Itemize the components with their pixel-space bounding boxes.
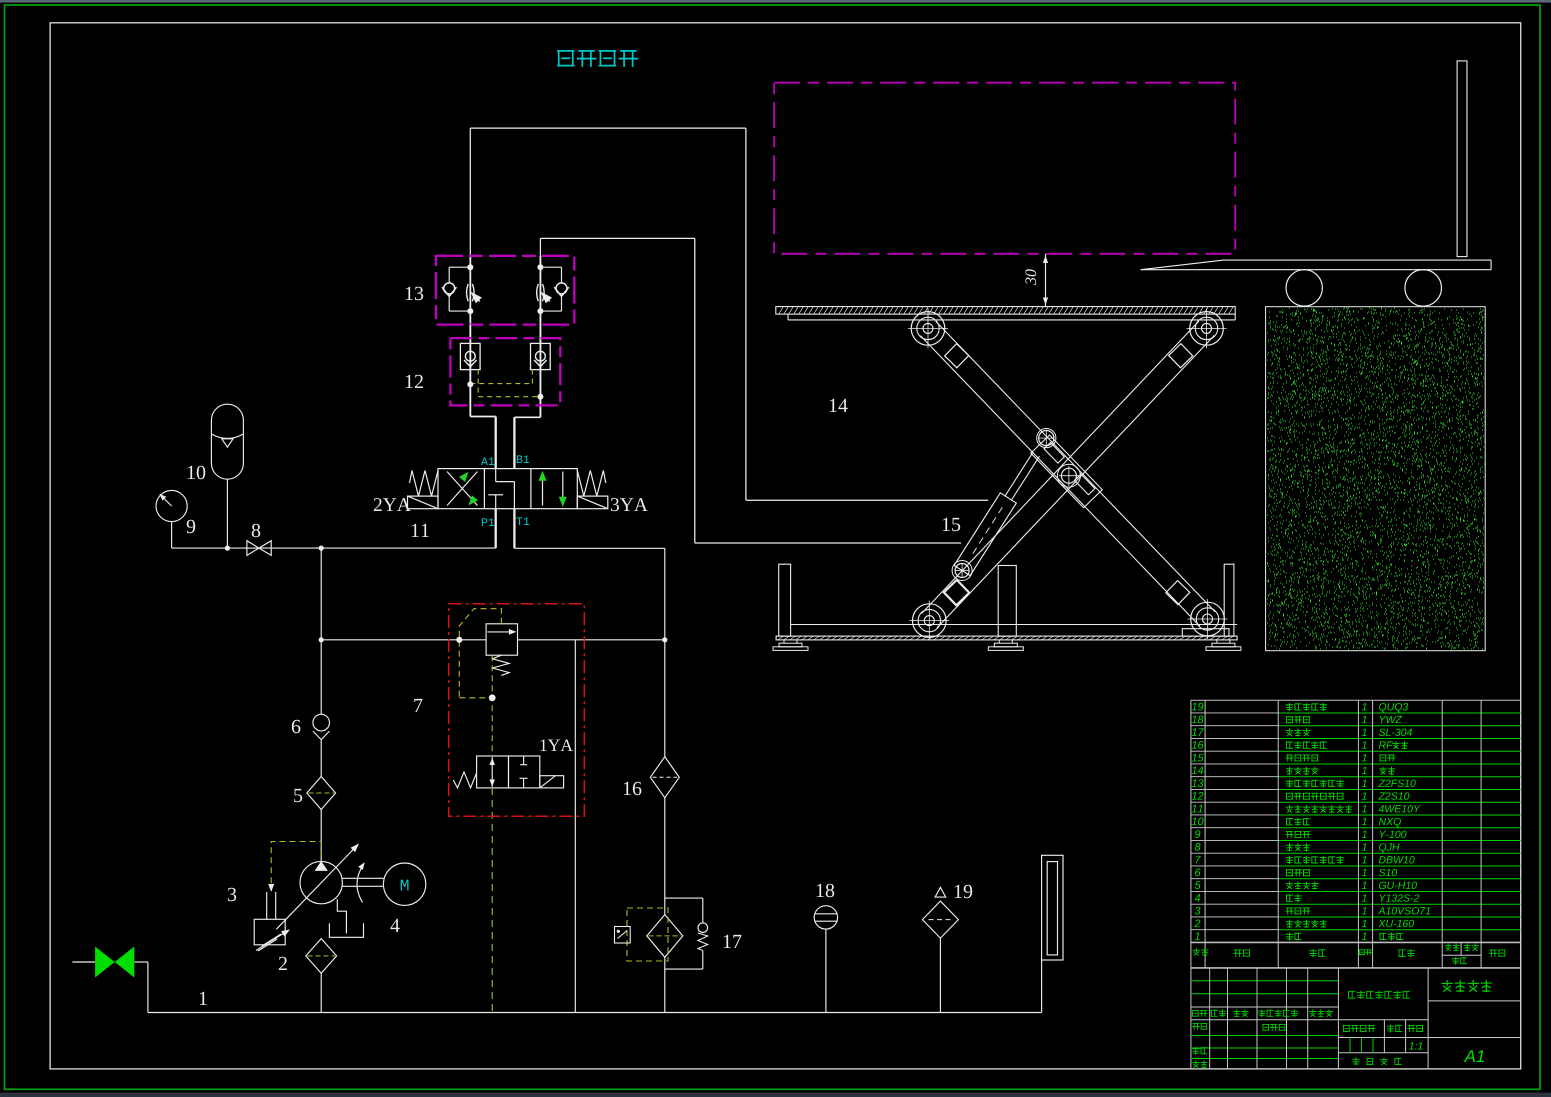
suction filter 2: [279, 939, 337, 1013]
wire: pump column: [320, 548, 322, 714]
wire: [664, 798, 666, 915]
wire: supply line to P1: [172, 547, 496, 549]
dimension 30: [1025, 254, 1048, 307]
pump case drain to tank: [329, 899, 363, 937]
wire: return to tank: [574, 640, 576, 1013]
title block: [1191, 968, 1521, 1069]
pump compensator control: [254, 842, 321, 952]
load outline box (magenta dash-dot): [774, 83, 1235, 254]
air filter 19: [922, 885, 972, 1013]
trailer flatbed: [1141, 61, 1491, 306]
filter 5: [294, 777, 335, 862]
shut-off valve 8: [247, 524, 271, 556]
lift base frame: [773, 564, 1241, 650]
directional valve 11 (4WE10Y): [408, 469, 608, 509]
electric motor 4: [342, 862, 426, 932]
node: relief line left junction: [319, 637, 324, 642]
check valve 6: [292, 714, 330, 776]
wire: A-line riser: [469, 128, 471, 256]
wire: B-line riser: [539, 238, 541, 256]
scissor arm (LL to UR): [922, 321, 1214, 628]
hydraulic cylinder 15: [943, 429, 1056, 607]
wire: P1 and T1 stubs: [495, 509, 497, 548]
roller bearings: [908, 308, 1228, 640]
center pivot: [1057, 464, 1080, 487]
magnetic return filter 17 with bypass: [615, 898, 742, 969]
title text 升降系统: [558, 51, 637, 66]
level gauge 18: [814, 884, 837, 1013]
scissor arm (LR to UL): [920, 321, 1215, 626]
node: pilot junction: [489, 694, 496, 701]
wire: relief line: [321, 639, 486, 641]
pressure gauge 9: [156, 490, 195, 548]
ground/stipple block: [1266, 307, 1486, 651]
cylinder bracket: [1031, 435, 1102, 508]
arm lightening holes: [945, 344, 1193, 605]
pilot relief valve 7 (DBW10): [486, 624, 517, 676]
wire: [664, 640, 666, 757]
pilot lines of relief valve 7: [459, 609, 501, 756]
return filter 16: [624, 757, 680, 798]
node: pilot tap on relief line: [456, 637, 462, 643]
drain valve (green): [72, 947, 147, 1013]
unloading solenoid valve 1YA: [453, 739, 573, 787]
node: pump column junction: [319, 546, 324, 551]
enclosure box 13 (magenta dashed): [436, 256, 574, 325]
node: return junction: [662, 637, 667, 642]
stacked pilot-operated check valve 12 (hydraulic lock): [460, 325, 550, 418]
accumulator 10: [188, 404, 244, 548]
variable pump 3: [228, 843, 359, 929]
wire: B-line to cylinder base side: [540, 237, 694, 239]
oil level indicator column: [1042, 855, 1063, 1012]
lifting platform 14: [776, 307, 1235, 412]
BOM table: [1191, 700, 1521, 968]
wire: 1YA drain to tank (pilot): [491, 788, 493, 1013]
enclosure box 12 (magenta dashed): [450, 338, 560, 405]
wire: T1 return run: [514, 547, 664, 549]
port labels A1 B1 P1 T1: [481, 457, 494, 465]
node: accumulator junction: [225, 546, 230, 551]
enclosure box 7 (red dash-dot): [449, 604, 585, 817]
oil tank 1 top line: [148, 1012, 1042, 1014]
wire: A-line to cylinder rod side: [470, 127, 746, 129]
stacked dual throttle/check valve 13: [442, 256, 569, 325]
